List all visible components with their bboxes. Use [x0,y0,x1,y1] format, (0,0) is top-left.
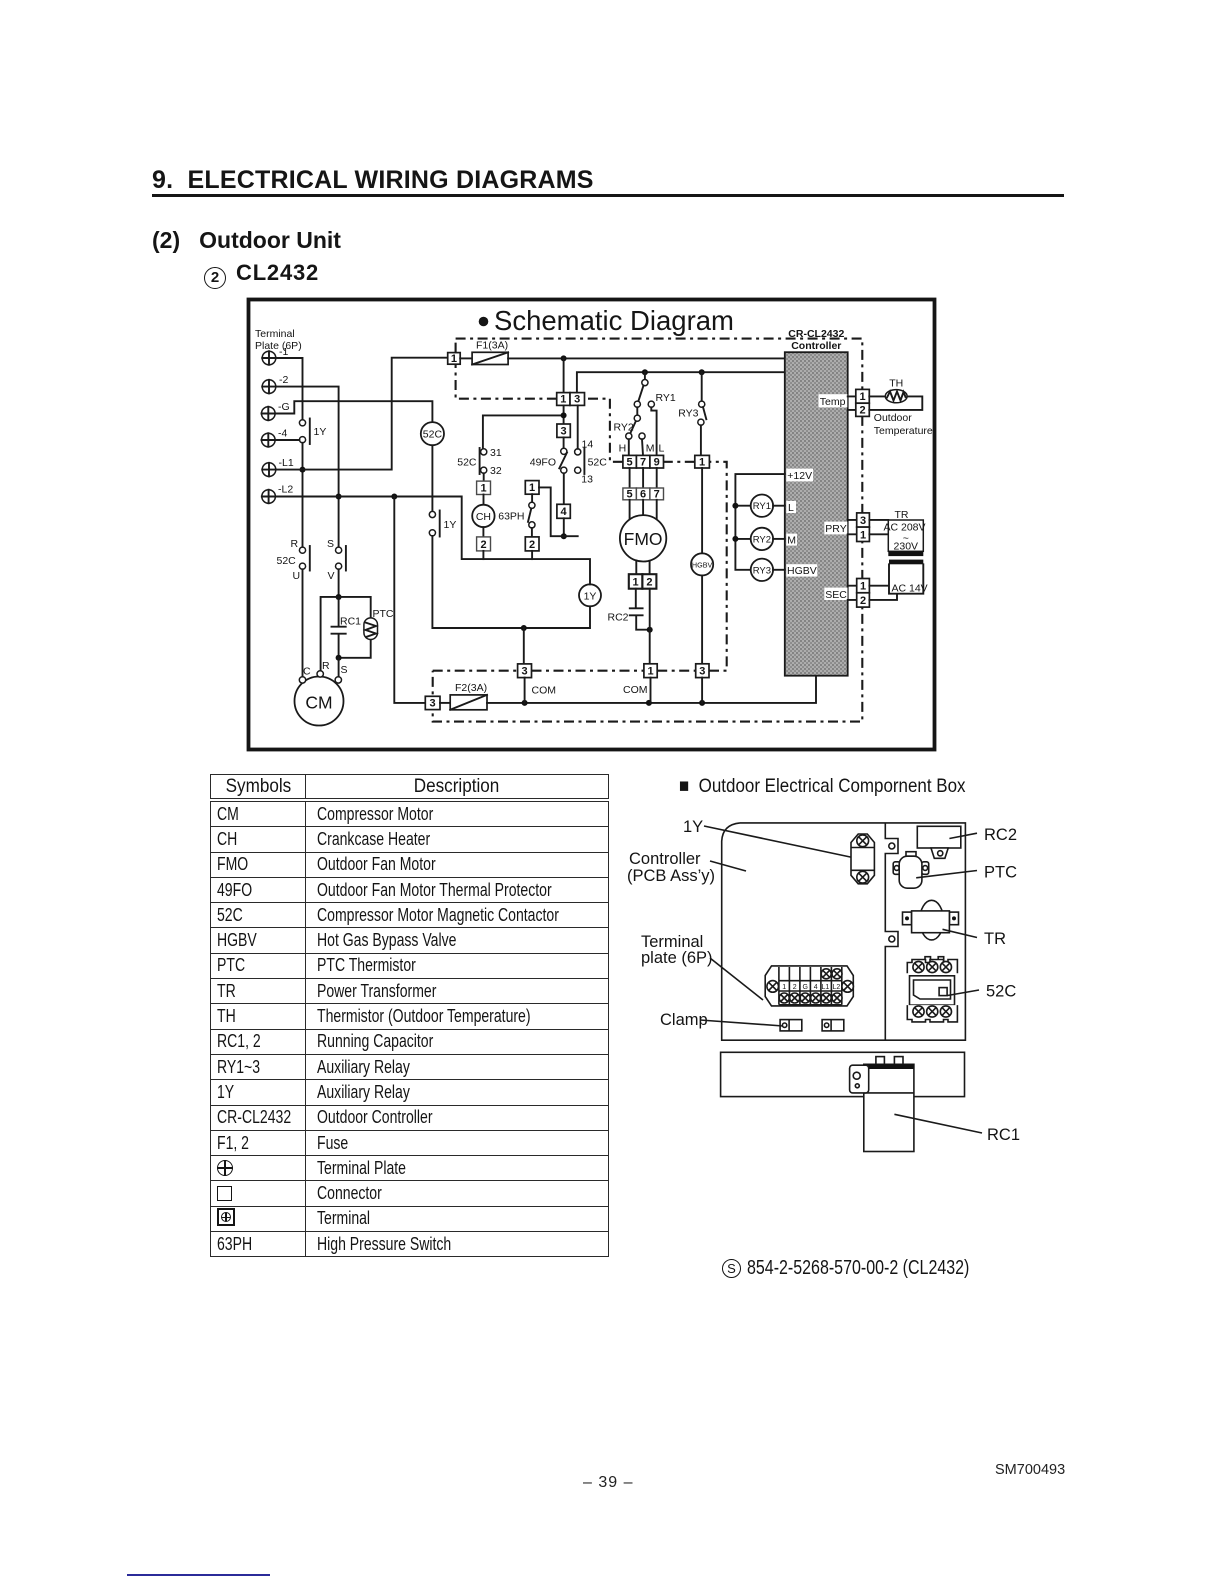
terminal -1 [262,346,288,365]
svg-text:-2: -2 [279,374,288,386]
svg-text:1Y: 1Y [314,426,327,438]
capacitor RC2 [607,589,652,633]
wire node to CM terminal S [338,658,340,677]
connector pin 1 (CH) [477,481,491,494]
connector pins 5|7|9 [623,455,664,468]
label SEC [824,588,847,601]
svg-text:TR: TR [895,509,909,521]
relay coil RY3 [751,559,785,581]
auxiliary contact 52C 31-32 [457,447,502,477]
svg-text:F2(3A): F2(3A) [455,682,487,694]
svg-text:5: 5 [627,488,633,500]
wire FMO-2 to connector 1 [649,589,651,664]
label +12V [786,469,813,482]
wire CH-2 to L2 runner [482,551,484,559]
svg-text:V: V [328,570,335,582]
svg-text:2: 2 [859,405,865,417]
svg-text:52C: 52C [588,457,608,469]
wire node to connector 1 [563,358,565,392]
svg-text:2: 2 [529,539,535,551]
capacitor RC1 (component) [850,1057,1020,1152]
svg-text:S: S [327,538,334,550]
svg-text:4: 4 [814,984,818,991]
wire -L1 to fuse F1 [275,358,447,470]
svg-text:Temp: Temp [820,396,846,408]
svg-text:U: U [293,570,301,582]
partition divider [885,823,898,1040]
relay coil RY2 [751,528,785,550]
svg-text:1: 1 [859,391,865,403]
connector pin 1 (FMO COM) [644,664,657,678]
svg-text:SEC: SEC [825,589,847,601]
svg-text:Schematic Diagram: Schematic Diagram [494,305,734,336]
contactor coil 52C [421,422,444,445]
connector pins 5|6|7 [623,488,664,500]
svg-text:2: 2 [860,595,866,607]
label Temp [819,394,848,408]
svg-text:1: 1 [451,353,457,365]
svg-text:plate (6P): plate (6P) [641,949,713,967]
fan motor FMO [620,500,666,574]
svg-text:-L1: -L1 [279,457,294,469]
svg-text:Temperature: Temperature [874,425,933,437]
svg-text:Controller: Controller [791,340,841,352]
svg-text:PRY: PRY [825,523,846,535]
label M [786,534,797,547]
svg-text:1: 1 [647,666,653,678]
terminal -L2 [262,484,294,504]
svg-text:L1: L1 [822,984,830,991]
svg-text:-G: -G [278,401,290,413]
svg-text:TH: TH [889,378,903,390]
wire -L2 runner [275,494,590,585]
label HGBV [786,564,817,577]
svg-text:HGBV: HGBV [787,565,817,577]
connector pins 1|2 (FMO) [629,574,657,589]
wire 52C coil to 1Y contact (lower) [431,445,433,511]
svg-text:3: 3 [561,425,567,437]
wire 32 to connector 1 [483,473,485,481]
connector pins PRY 3/1 [848,513,870,542]
svg-text:M: M [787,535,796,547]
svg-text:L2: L2 [833,984,841,991]
svg-text:CH: CH [476,511,491,523]
relay 1Y (component) [851,834,874,884]
controller CR-CL2432 [785,328,848,676]
svg-text:52C: 52C [423,429,443,441]
label Outdoor Temperature [874,412,933,437]
svg-text:S: S [341,664,348,676]
high pressure switch 63PH [498,481,539,551]
svg-text:9: 9 [654,456,660,468]
transformer TR secondary [869,564,927,600]
svg-text:1: 1 [699,456,705,468]
wire -2 to 52C contact S [275,387,341,547]
svg-text:RY2: RY2 [614,422,634,434]
thermistor PTC [336,597,394,661]
svg-text:13: 13 [581,474,593,486]
svg-text:FMO: FMO [624,529,663,549]
connector pins Temp 1/2 [848,389,870,416]
controller boundary dash-dot [433,339,863,722]
svg-text:Terminal: Terminal [255,328,295,340]
wire +12V harness [732,474,784,570]
thermal protector 49FO [530,437,567,473]
relay contact RY1 [634,372,676,455]
relay coil 1Y [579,584,601,606]
thermistor PTC (component) [893,852,1017,889]
svg-text:L: L [788,502,794,514]
wire pin4 to node B [561,518,567,539]
svg-text:COM: COM [532,685,557,697]
connector pins SEC 1/2 [848,579,870,608]
svg-text:RC1: RC1 [340,616,361,628]
terminal plate 6P (component) [765,966,853,1006]
wire -G to 52C coil [275,401,433,422]
wire pin3 to COM line [701,678,703,703]
svg-text:1Y: 1Y [444,519,457,531]
svg-text:COM: COM [623,684,648,696]
terminal -L1 [262,457,294,476]
transformer TR (component) [903,900,1007,948]
auxiliary contact 52C 13-14 [575,439,608,486]
terminal -G [262,401,290,420]
svg-text:C: C [303,666,311,678]
label Terminal plate (6P) with leader [641,933,763,1000]
svg-text:3: 3 [699,666,705,678]
svg-text:63PH: 63PH [498,511,524,523]
svg-text:2: 2 [480,539,486,551]
svg-text:CM: CM [305,693,332,713]
svg-text:2: 2 [646,576,652,588]
contactor 52C main contact R-U [277,538,310,582]
wire 49FO to connector 4 [563,473,565,504]
svg-text:RY2: RY2 [753,534,771,545]
svg-text:RY1: RY1 [753,501,771,512]
relay contact 1Y (lower) [429,511,456,537]
svg-text:R: R [322,660,330,672]
svg-text:H: H [619,443,627,455]
svg-text:230V: 230V [894,541,919,553]
COM line [487,676,816,706]
connector pin 4 [557,504,570,518]
wire 63PH-1 to node B [539,487,578,536]
connector pin 1 (HGBV branch) [695,455,710,468]
connector pins 1|3 [557,393,585,406]
svg-text:3: 3 [430,698,436,710]
svg-text:14: 14 [582,439,594,451]
wire -4 to 1Y contact [275,439,300,441]
svg-text:-L2: -L2 [278,484,293,496]
thermistor TH [869,378,922,410]
svg-text:6: 6 [640,488,646,500]
svg-text:RC2: RC2 [984,826,1017,844]
connector pin 3 (HGBV COM) [696,664,709,678]
wire 63PH-2 to L2 runner [531,551,533,559]
label 1Y with leader [683,818,855,858]
svg-text:2: 2 [793,984,797,991]
svg-text:RC1: RC1 [987,1126,1020,1144]
wire U to CM terminal C [302,569,304,676]
svg-text:RY3: RY3 [678,408,698,420]
terminal plate (6P) label [255,328,302,352]
terminal -2 [262,374,288,393]
connector pin 1 (F1) [448,353,461,365]
svg-text:TR: TR [984,930,1006,948]
label Clamp with leader [660,1011,783,1029]
wire pin1 to 52C contact 31 [483,405,567,448]
svg-text:3: 3 [574,394,580,406]
wire node to CM terminal R [321,597,339,671]
svg-text:Outdoor: Outdoor [874,412,912,424]
svg-text:F1(3A): F1(3A) [476,340,508,352]
clamps [780,1020,844,1031]
labels H M L [619,443,665,455]
svg-text:RC2: RC2 [607,612,628,624]
svg-text:1: 1 [560,394,566,406]
svg-text:32: 32 [490,465,502,477]
terminal -4 [262,428,288,447]
svg-text:7: 7 [654,488,660,500]
wire 1Y to 52C contact R [300,443,306,547]
svg-text:+12V: +12V [787,470,812,482]
wire node to connector 3 (left COM) [523,628,525,664]
svg-text:3: 3 [860,515,866,527]
contactor 52C (component) [907,957,1016,1022]
svg-text:1: 1 [529,482,535,494]
wire RY3 to HGBV [701,468,703,553]
svg-text:PTC: PTC [984,864,1017,882]
svg-text:G: G [802,984,807,991]
svg-text:-1: -1 [279,346,288,358]
svg-text:5: 5 [627,456,633,468]
capacitor RC2 (component) [917,826,1017,858]
svg-text:1Y: 1Y [683,818,703,836]
label PRY [824,522,847,535]
component box outline [722,823,966,1040]
capacitor RC1 [332,597,362,658]
relay coil RY1 [751,495,785,517]
svg-text:1: 1 [860,529,866,541]
svg-text:R: R [291,538,299,550]
svg-text:52C: 52C [986,983,1016,1001]
connector pin 3 (49FO) [557,424,570,437]
relay contact RY2 [614,407,646,455]
wire 14 to pin3 [577,405,579,448]
wire HGBV to connector 3 [701,576,703,664]
svg-text:AC 14V: AC 14V [892,582,928,594]
label L [786,501,796,514]
wire pin3 to COM line [524,678,526,703]
svg-text:M: M [646,443,655,455]
connector pin 3 (F2) [425,696,440,709]
connector pin 2 (CH) [477,527,491,551]
svg-text:Controller: Controller [629,850,701,868]
crankcase heater CH [472,495,494,528]
svg-text:7: 7 [640,456,646,468]
connector pin 3 (left COM) [518,664,532,678]
solenoid valve HGBV [691,553,713,575]
svg-text:49FO: 49FO [530,457,556,469]
svg-text:52C: 52C [277,555,297,567]
svg-text:4: 4 [561,506,568,518]
svg-text:31: 31 [490,447,502,459]
wire pin1 to COM line [650,678,652,703]
svg-text:RY1: RY1 [656,392,676,404]
svg-text:RY3: RY3 [753,565,771,576]
svg-text:1: 1 [480,483,486,495]
wire 1Y contact to 1Y coil [432,536,590,631]
contactor 52C main contact S-V [327,538,346,582]
svg-text:52C: 52C [457,457,477,469]
wires 5/7/9 to fan connector [630,468,657,488]
wire pin3 to relay commons [577,369,785,392]
svg-text:PTC: PTC [373,608,394,620]
fuse F1(3A) [460,340,508,365]
svg-text:1Y: 1Y [584,590,597,602]
mounting rail box [721,1052,965,1096]
wire -1 to 1Y contact [275,358,302,420]
wire -L2 to fuse F2 [394,497,425,703]
svg-text:1: 1 [782,984,786,991]
relay contact 1Y (upper) [299,419,326,445]
svg-text:-4: -4 [278,428,287,440]
transformer TR primary [869,509,925,564]
compressor motor CM [295,660,348,726]
svg-text:1: 1 [860,581,866,593]
label Controller (PCB Ass'y) with leader [627,850,746,885]
svg-text:CR-CL2432: CR-CL2432 [788,328,844,340]
svg-text:HGBV: HGBV [692,560,713,569]
svg-text:1: 1 [633,576,639,588]
svg-text:L: L [659,443,665,455]
fuse F2(3A) [440,682,487,710]
relay contact RY3 [678,372,706,455]
svg-text:(PCB Ass’y): (PCB Ass’y) [627,867,715,885]
wire F1 to controller [508,355,785,361]
svg-text:3: 3 [521,666,527,678]
wire V to node RC1 [336,569,342,600]
